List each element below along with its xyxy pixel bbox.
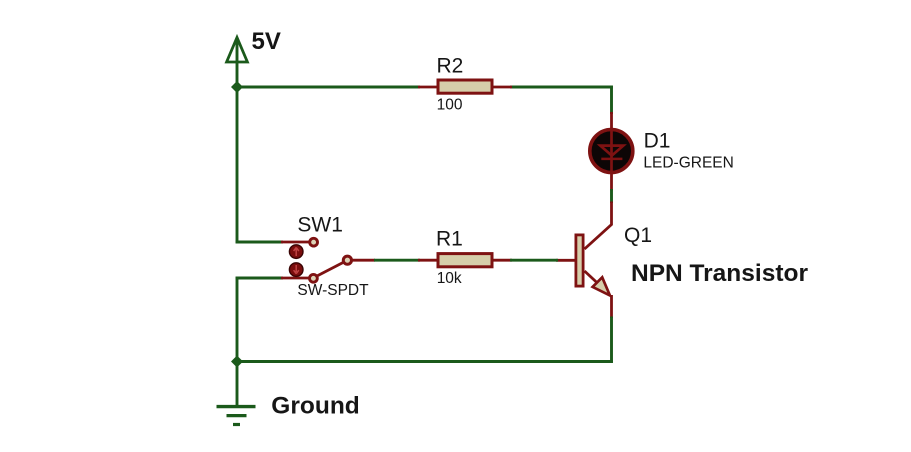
- svg-text:10k: 10k: [437, 270, 462, 287]
- svg-text:Q1: Q1: [624, 224, 652, 247]
- resistor R1 pins: [418, 259, 438, 262]
- resistor R1 body: [438, 254, 492, 267]
- switch SW1 actuator up: [289, 245, 303, 259]
- power symbol 5V: [227, 38, 248, 63]
- node junction at ground rail: [231, 356, 243, 368]
- transistor Q1 collector pin: [585, 202, 612, 250]
- LED D1 diode symbol: [600, 130, 623, 172]
- wire corner down to LED: [610, 86, 613, 114]
- wire bottom net: [237, 360, 613, 363]
- wire emitter to bottom net: [610, 317, 613, 363]
- node junction at 5V rail: [231, 81, 243, 93]
- svg-text:5V: 5V: [252, 28, 281, 55]
- switch SW1 bottom throw pin: [281, 277, 310, 280]
- svg-text:Ground: Ground: [271, 393, 359, 420]
- svg-text:LED-GREEN: LED-GREEN: [643, 154, 733, 171]
- switch SW1 bottom throw contact: [310, 274, 318, 282]
- ground symbol: [217, 407, 256, 425]
- switch SW1 top throw pin: [281, 241, 310, 244]
- switch SW1 actuator down: [289, 263, 303, 277]
- svg-text:SW-SPDT: SW-SPDT: [297, 282, 369, 299]
- wire ground stub: [236, 360, 239, 406]
- svg-text:SW1: SW1: [297, 214, 343, 237]
- transistor Q1 emitter: [585, 271, 600, 285]
- wire left rail upper (5V to top switch wire): [236, 40, 239, 243]
- svg-text:R1: R1: [436, 228, 463, 251]
- wire R1 to Q1 base: [510, 259, 558, 262]
- transistor Q1 emitter pin lower: [610, 295, 613, 318]
- wire pole to R1: [374, 259, 420, 262]
- wire to switch bottom throw: [236, 277, 283, 280]
- switch SW1 pole pin: [350, 259, 375, 262]
- switch SW1 lever: [316, 262, 345, 277]
- switch SW1 pole contact: [343, 256, 351, 264]
- svg-text:NPN Transistor: NPN Transistor: [631, 260, 808, 287]
- LED D1 body: [590, 130, 633, 173]
- wire LED to Q1 collector: [610, 189, 613, 203]
- LED D1 pin bottom: [610, 171, 613, 191]
- wire R2 to corner: [510, 86, 613, 89]
- wire left rail lower (bottom switch wire to ground): [236, 277, 239, 363]
- transistor Q1 emitter arrow: [593, 277, 610, 295]
- transistor Q1 base pin: [556, 259, 576, 262]
- svg-text:D1: D1: [644, 130, 671, 153]
- transistor Q1 body bar: [576, 235, 583, 286]
- wire top net (junction to R2): [236, 86, 420, 89]
- resistor R2 body: [438, 80, 492, 93]
- svg-text:100: 100: [437, 96, 463, 113]
- switch SW1 top throw contact: [310, 238, 318, 246]
- svg-text:R2: R2: [437, 54, 464, 77]
- LED D1 pin top: [610, 112, 613, 131]
- resistor R2 pins: [418, 86, 438, 89]
- wire to switch top throw: [236, 241, 283, 244]
